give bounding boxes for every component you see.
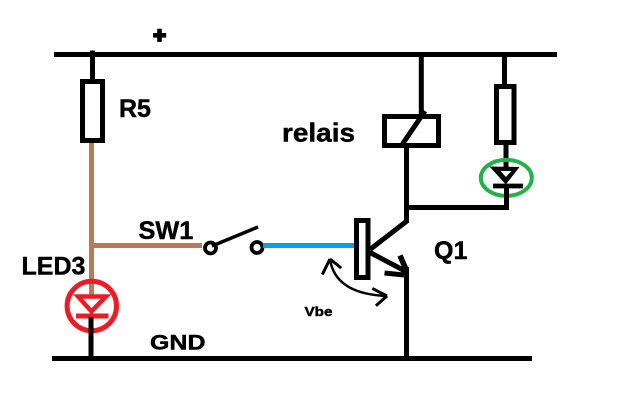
wire top rail to R5 — [90, 51, 95, 83]
wire top rail to relay — [419, 55, 424, 117]
LED LED3 cathode bar — [76, 314, 109, 319]
LED green body (green ellipse) — [481, 160, 532, 196]
wire resistor to green LED — [504, 144, 509, 172]
svg-text:GND: GND — [150, 332, 206, 355]
transistor Q1 base bar — [357, 221, 369, 278]
switch SW1 left contact — [205, 243, 216, 254]
svg-text:Vbe: Vbe — [305, 304, 333, 319]
resistor R5 — [83, 82, 103, 141]
wire collector node to LED branch — [405, 205, 508, 210]
transistor Q1 collector stroke — [370, 221, 408, 250]
relay diagonal stroke — [403, 111, 426, 144]
transistor Q1 emitter stroke — [370, 253, 405, 272]
switch SW1 lever — [212, 227, 258, 246]
label + (positive supply) — [153, 29, 166, 42]
svg-text:Q1: Q1 — [434, 237, 467, 265]
switch SW1 right contact — [252, 242, 263, 253]
svg-text:SW1: SW1 — [139, 217, 194, 245]
resistor right (unlabelled) — [497, 87, 515, 143]
wire SW1 to Q1 base (blue) — [263, 243, 357, 248]
LED green cathode bar — [493, 184, 523, 189]
relay coil body — [385, 117, 439, 146]
Vbe arc arrow base to emitter — [322, 259, 387, 306]
LED green anode arrow — [490, 167, 520, 185]
LED LED3 body (red circle) — [67, 281, 116, 330]
ground rail GND — [52, 356, 532, 361]
wire relay to Q1 collector — [404, 146, 409, 223]
svg-text:R5: R5 — [119, 95, 151, 123]
wire V+ top rail — [54, 52, 557, 57]
wire R5 to LED3 anode (brown) — [89, 143, 94, 298]
svg-text:relais: relais — [282, 118, 355, 148]
svg-text:LED3: LED3 — [22, 253, 86, 281]
wire top rail to R right — [502, 55, 507, 89]
LED LED3 triangle (anode) — [78, 297, 106, 312]
wire LED3 cathode to ground rail — [89, 317, 94, 361]
transistor Q1 emitter arrowhead — [385, 256, 407, 276]
wire node A to SW1 (brown) — [89, 243, 202, 248]
wire green LED cathode to collector node — [504, 186, 509, 210]
wire Q1 emitter to ground rail — [404, 267, 409, 361]
